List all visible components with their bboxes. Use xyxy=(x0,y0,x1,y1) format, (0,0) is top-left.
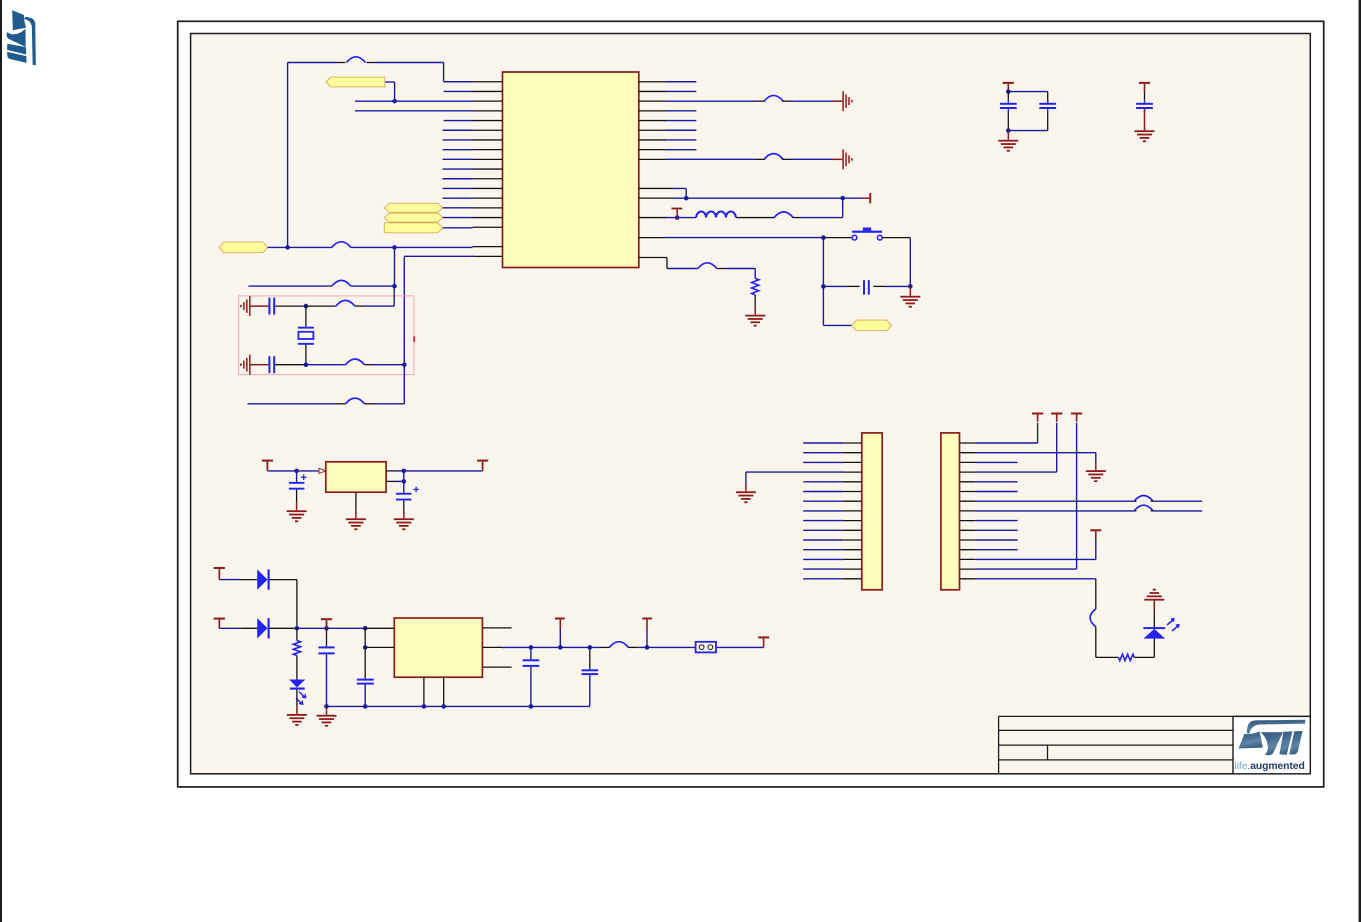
power tap T6 xyxy=(1139,82,1150,84)
wire VDD row (U1 pin 18) xyxy=(268,242,473,250)
U1 right pin 8 stub xyxy=(639,149,666,151)
wire J3 pin 14 to T3 xyxy=(976,423,1077,569)
wire gnd to C6 xyxy=(260,305,268,307)
title block lines xyxy=(999,716,1311,773)
power tap T8 xyxy=(262,460,273,462)
ground J3 pin 2 xyxy=(1086,470,1106,472)
U1 left pin 3 stub xyxy=(473,100,503,102)
power tap Td xyxy=(555,618,565,648)
LED D3 xyxy=(1143,619,1178,658)
wire U1 left pin 9 xyxy=(443,158,473,160)
U3 right pin 1 stub xyxy=(482,627,511,629)
ground J2 pin 4 xyxy=(736,472,756,503)
flag VDD xyxy=(219,242,268,253)
ST logo (top-left, rotated) xyxy=(7,10,36,65)
wire U1 left pin 6 xyxy=(443,129,473,131)
antenna ground XT bottom xyxy=(240,355,260,375)
wire U1 right pin 9 to AGND xyxy=(666,154,833,160)
U1 right pin 4 stub xyxy=(639,110,666,112)
J3 pin 10 stub xyxy=(960,529,976,531)
J3 pin 3 stub xyxy=(960,461,976,463)
wire U2 out xyxy=(386,469,483,474)
capacitor Ca xyxy=(318,628,334,706)
ground after C5 xyxy=(900,286,920,307)
U1 right pin 2 stub xyxy=(639,90,666,92)
ground below C3 xyxy=(1135,109,1155,142)
J2 pin 3 xyxy=(803,461,862,463)
terminal T-end VOUT xyxy=(863,193,872,203)
U1 left pin 8 stub xyxy=(473,149,503,151)
J3 pin 13 stub xyxy=(960,558,976,560)
J2 pin 7 xyxy=(803,500,862,502)
wire U3 output row xyxy=(482,642,695,650)
power tap Tc xyxy=(321,618,332,628)
flag P3 xyxy=(326,77,385,87)
wire D1 corner xyxy=(270,580,297,629)
wire U1 left pin 10 xyxy=(443,168,473,170)
J3 pin 9 stub xyxy=(960,520,976,522)
wire U1 pin 14 xyxy=(443,207,473,209)
J2 pin 1 xyxy=(803,442,862,444)
wire pin 19 to R1 xyxy=(667,258,755,279)
U1 right pin 17 stub xyxy=(639,237,664,239)
red tick label xyxy=(413,336,415,342)
J2 pin 15 xyxy=(803,578,862,580)
U1 left pin 10 stub xyxy=(473,168,503,170)
J2 pin 10 xyxy=(803,529,862,531)
U3 right pin 3 stub xyxy=(482,666,511,668)
push button SW1 xyxy=(852,228,882,241)
wire C2 bottom rail xyxy=(1006,128,1048,133)
wire U1 pin 19 to crystal xyxy=(404,256,474,364)
power tap Tb xyxy=(214,618,225,620)
wire J3 pin 8 long xyxy=(976,505,1203,511)
svg-text:life.augmented: life.augmented xyxy=(1235,761,1305,772)
antenna ground right pin 9 xyxy=(833,149,853,169)
J2 pin 9 xyxy=(803,520,862,522)
wire T8 to U2 xyxy=(267,462,325,474)
wire J3 pin 6 xyxy=(976,491,1018,493)
J3 pin 4 stub xyxy=(960,471,976,473)
U1 right pin 7 stub xyxy=(639,139,666,141)
capacitor Cc xyxy=(523,647,540,706)
U1 left pin 6 stub xyxy=(473,129,503,131)
J2 pin 11 xyxy=(803,539,862,541)
diode D1 xyxy=(257,569,267,589)
U1 right pin 3 stub xyxy=(639,100,666,102)
wire U1 right pin 1 xyxy=(666,81,696,83)
antenna ground XT top xyxy=(240,296,260,316)
J3 pin 11 stub xyxy=(960,539,976,541)
J3 pin 1 stub xyxy=(960,442,976,444)
U1 right pin 1 stub xyxy=(639,81,666,83)
wire button left branch xyxy=(822,238,824,287)
U1 left pin 16 stub xyxy=(473,226,503,228)
J2 pin 12 xyxy=(803,549,862,551)
U2 ground pin xyxy=(346,492,366,530)
power tap T7 xyxy=(672,208,683,218)
wire U1 right pin 7 xyxy=(666,139,696,141)
wire pin 15 to coil xyxy=(666,215,696,220)
wire pin 17 to button xyxy=(664,235,852,240)
capacitor Cd xyxy=(582,647,599,706)
wire U1 left pin 4 xyxy=(355,110,473,112)
wire Cd top node xyxy=(588,645,593,650)
wire top loop (U1 pin 1) xyxy=(288,57,473,82)
logo box xyxy=(1233,716,1310,773)
wire U1 right pin 2 xyxy=(666,90,696,92)
power tap T1 xyxy=(1032,413,1043,415)
U1 left pin 7 stub xyxy=(473,139,503,141)
U1 right pin 15 stub xyxy=(639,217,666,219)
J2 pin 8 xyxy=(803,510,862,512)
page left edge xyxy=(0,0,2,922)
capacitor Cb xyxy=(357,647,374,706)
U1 left pin 11 stub xyxy=(473,178,503,180)
wire U1 pin 15 xyxy=(443,217,473,219)
wire T5 node xyxy=(1006,89,1048,104)
J3 pin 8 stub xyxy=(960,510,976,512)
outer sheet frame xyxy=(178,21,1324,787)
J3 pin 5 stub xyxy=(960,481,976,483)
wire J3 pin 10 xyxy=(976,529,1018,531)
U1 left pin 14 stub xyxy=(473,207,503,209)
wire C6 to node xyxy=(275,304,308,309)
ground below R1 xyxy=(745,295,765,327)
connector J2 body xyxy=(862,433,882,590)
power tap Te xyxy=(642,618,652,648)
U1 left pin 12 stub xyxy=(473,187,503,189)
ground below C9 xyxy=(394,501,414,531)
wire J3 pin 7 long xyxy=(976,496,1203,502)
inductor L1 xyxy=(696,212,736,218)
capacitor C6 xyxy=(268,298,270,315)
wire U1 left pin 12 xyxy=(443,187,473,189)
ground below Ca xyxy=(317,704,337,727)
U1 right pin 12 stub xyxy=(639,187,673,189)
U1 left pin 15 stub xyxy=(473,217,503,219)
wire J3 pin 13 to T4 xyxy=(976,541,1096,560)
wire button right corner xyxy=(882,238,910,287)
MCU U1 body xyxy=(503,72,639,268)
crystal Y1 xyxy=(298,306,314,365)
wire J3 pin 2 to ground xyxy=(976,453,1096,471)
U1 left pin 13 stub xyxy=(473,197,503,199)
regulator U2 body xyxy=(326,462,386,492)
J3 pin 12 stub xyxy=(960,549,976,551)
ground below D4 xyxy=(287,690,307,726)
wire U3 pin2 node xyxy=(363,628,394,649)
U1 left pin 5 stub xyxy=(473,120,503,122)
resistor R4 xyxy=(293,628,300,679)
flag NRST xyxy=(852,320,892,331)
connector J3 body xyxy=(941,433,960,590)
U1 left pin 4 stub xyxy=(473,110,503,112)
wire OSC stub row xyxy=(248,247,396,288)
wire U1 right pin 5 xyxy=(666,120,696,122)
U3 ground pins xyxy=(424,677,444,706)
power tap T3 xyxy=(1071,413,1082,415)
wire J3 pin 1 to T1 xyxy=(976,423,1038,443)
crystal block outline xyxy=(239,296,414,375)
U1 right pin 13 stub xyxy=(639,197,673,199)
wire gnd to C7 xyxy=(260,364,268,366)
U1 left pin 18 stub xyxy=(473,246,503,248)
J2 pin 5 xyxy=(803,481,862,483)
J3 pin 15 stub xyxy=(960,578,976,580)
resistor R1 xyxy=(752,278,759,295)
wire to flag NRST xyxy=(823,286,851,325)
wire J3 pin 15 to LED2 xyxy=(976,579,1119,658)
J3 pin 6 stub xyxy=(960,491,976,493)
wire U1 right pin 3 to AGND xyxy=(666,95,833,101)
wire Tb to D2 xyxy=(219,620,257,629)
ground below C1 C2 xyxy=(998,131,1018,152)
capacitor C2 xyxy=(1039,100,1056,131)
capacitor C9 (polarized) xyxy=(396,487,419,501)
wire U1 right pin 6 xyxy=(666,129,696,131)
wire J3 pin 3 xyxy=(976,461,1018,463)
U1 right pin 5 stub xyxy=(639,120,666,122)
wire net to U1 pin 3 (flag P3) xyxy=(355,82,473,103)
J3 pin 14 stub xyxy=(960,568,976,570)
wire Ta to D1 xyxy=(219,569,257,580)
wire U1 right pin 4 xyxy=(666,110,696,112)
wire D2 to node xyxy=(270,626,300,631)
U1 left pin 2 stub xyxy=(473,90,503,92)
J3 pin 2 stub xyxy=(960,452,976,454)
antenna ground right pin 3 xyxy=(833,91,853,111)
wire U1 left pin 7 xyxy=(443,139,473,141)
capacitor C5 xyxy=(863,280,865,295)
J2 pin 13 xyxy=(803,558,862,560)
U1 left pin 1 stub xyxy=(473,81,503,83)
J2 pin 4 xyxy=(746,471,862,473)
U1 right pin 9 stub xyxy=(639,158,666,160)
wire J3 pin 11 xyxy=(976,539,1018,541)
wire J3 pin 12 xyxy=(976,549,1018,551)
J3 pin 7 stub xyxy=(960,500,976,502)
wire input rail xyxy=(297,626,394,631)
wire U1 left pin 5 xyxy=(444,120,473,122)
power tap T9 xyxy=(477,460,488,471)
diode D2 xyxy=(257,618,267,638)
wire U1 left pin 2 xyxy=(444,90,473,92)
U1 right pin 19 stub xyxy=(639,257,667,259)
wire J3 pin 9 xyxy=(976,520,1018,522)
wire U1 pin 16 xyxy=(443,227,473,229)
wire reset row xyxy=(821,284,912,289)
wire VOUT row (pin 13) xyxy=(673,196,863,201)
wire U1 pin 12 loop xyxy=(673,188,689,200)
J2 pin 2 xyxy=(803,452,862,454)
wire C7 to node xyxy=(275,362,308,367)
wire crystal top to U1 xyxy=(306,286,394,306)
U1 left pin 19 stub xyxy=(473,255,503,257)
wire U1 left pin 8 xyxy=(443,149,473,151)
capacitor C8 (polarized) xyxy=(289,471,307,490)
wire U1 left pin 11 xyxy=(443,178,473,180)
wire U2 sense xyxy=(386,471,406,493)
capacitor C1 xyxy=(1000,92,1017,131)
power tap T2 xyxy=(1051,413,1062,415)
J2 pin 14 xyxy=(803,568,862,570)
wire OSC out bottom xyxy=(248,365,405,404)
resistor R3 xyxy=(1119,654,1135,660)
capacitor C7 xyxy=(268,356,270,373)
J2 pin 6 xyxy=(803,491,862,493)
wire U1 left pin 13 xyxy=(443,197,473,199)
wire left rail vertical xyxy=(287,63,289,248)
wire U1 right pin 8 xyxy=(666,149,696,151)
U2 input pin arrow xyxy=(319,468,326,473)
wire J3 pin 4 to T2 xyxy=(976,423,1057,472)
inverted ground above LED2 xyxy=(1144,589,1164,627)
ST logo (title block) xyxy=(1239,720,1306,756)
wire R3 to LED2 xyxy=(1134,656,1154,658)
wire coil to corner xyxy=(736,198,843,217)
ground below C8 xyxy=(287,490,307,523)
LED D4 xyxy=(289,680,306,705)
wire ground rail xyxy=(327,704,590,709)
jumper J1 xyxy=(696,642,716,653)
capacitor C3 xyxy=(1136,91,1153,112)
power tap T4 xyxy=(1090,529,1101,540)
power tap Ta xyxy=(214,567,225,569)
wire J3 pin 5 xyxy=(976,481,1018,483)
wire J1 to Tf xyxy=(716,646,764,648)
flag F2 xyxy=(384,213,442,222)
inner sheet frame xyxy=(191,34,1311,774)
flag F3 xyxy=(384,223,442,233)
power tap Tf xyxy=(758,636,769,647)
page right edge xyxy=(1359,0,1361,922)
flag F1 xyxy=(384,203,442,212)
regulator U3 body xyxy=(394,618,482,677)
U1 right pin 6 stub xyxy=(639,129,666,131)
wire crystal bottom to node xyxy=(306,359,407,367)
U1 left pin 9 stub xyxy=(473,158,503,160)
power tap T5 xyxy=(1003,82,1014,84)
